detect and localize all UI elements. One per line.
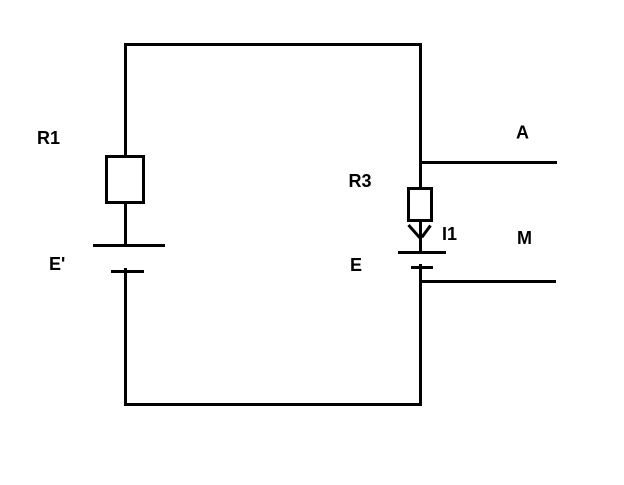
svg-text:I1: I1 — [442, 224, 457, 244]
svg-text:E: E — [350, 255, 362, 275]
wire left lower — [124, 268, 127, 406]
wire right upper — [419, 43, 422, 187]
wire to node A — [419, 161, 557, 164]
battery E long plate — [398, 251, 446, 254]
wire left middle — [124, 204, 127, 244]
svg-text:R1: R1 — [37, 128, 60, 148]
wire left upper — [124, 43, 127, 155]
svg-text:E': E' — [49, 254, 65, 274]
svg-text:M: M — [517, 228, 532, 248]
resistor R1 — [107, 157, 144, 203]
wire R3 to battery E — [419, 222, 422, 252]
wire bottom — [124, 403, 422, 406]
resistor R3 — [409, 189, 432, 221]
battery E' long plate — [93, 244, 165, 247]
svg-text:R3: R3 — [349, 171, 372, 191]
current arrow I1 — [409, 225, 431, 238]
svg-text:A: A — [516, 123, 529, 143]
wire top — [124, 43, 422, 46]
wire to node M — [419, 280, 556, 283]
battery E' short plate — [111, 270, 144, 273]
battery E short plate — [411, 266, 433, 269]
wire right lower — [419, 264, 422, 406]
